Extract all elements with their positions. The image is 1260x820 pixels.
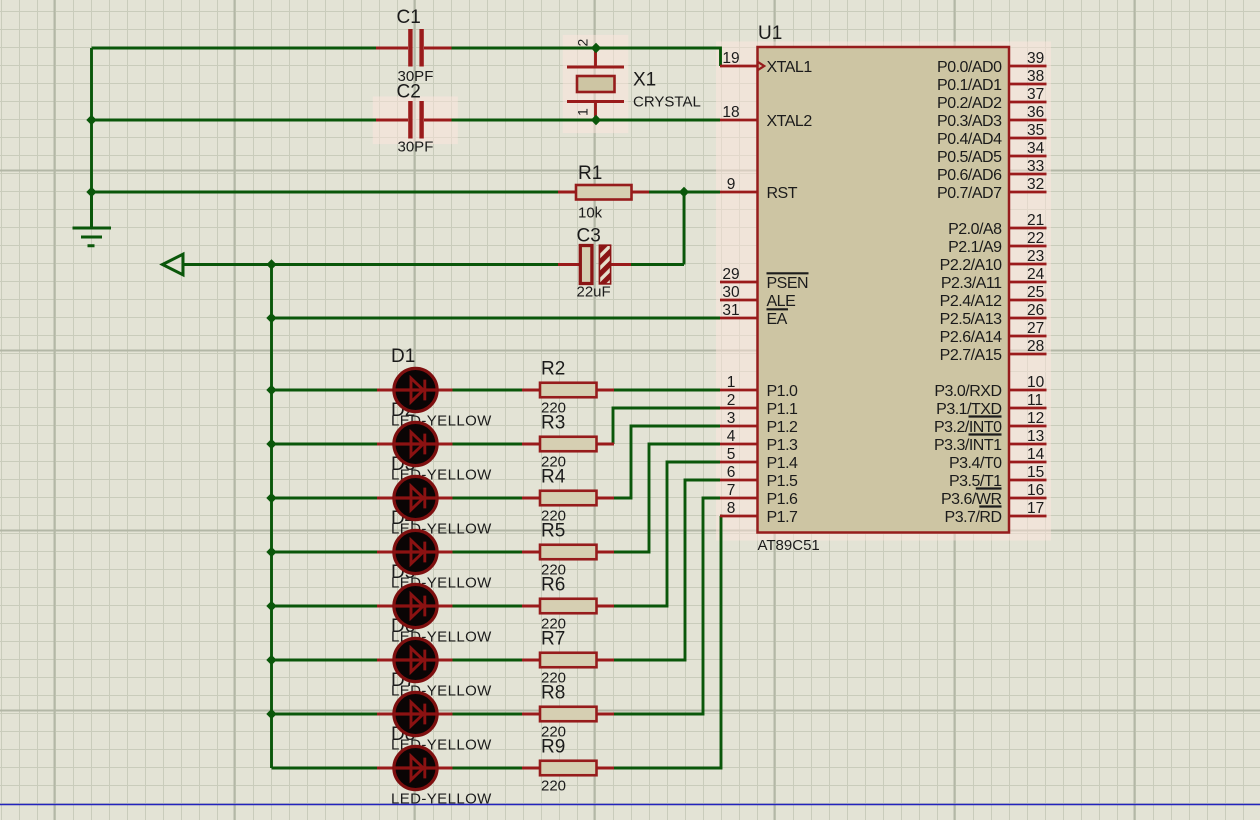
svg-text:30PF: 30PF	[398, 139, 434, 156]
svg-text:28: 28	[1027, 338, 1044, 355]
junction cathode bus / EA node	[266, 313, 276, 323]
overline WR	[976, 487, 1002, 489]
svg-text:36: 36	[1027, 104, 1044, 121]
svg-text:13: 13	[1027, 428, 1044, 445]
svg-text:AT89C51: AT89C51	[758, 537, 820, 554]
svg-text:P2.3/A11: P2.3/A11	[941, 275, 1002, 292]
svg-text:P1.3: P1.3	[767, 437, 799, 454]
svg-text:P2.5/A13: P2.5/A13	[940, 311, 1002, 328]
junction cathode bus / D6 node	[266, 655, 276, 665]
svg-text:10: 10	[1027, 374, 1045, 391]
svg-text:C2: C2	[397, 82, 421, 103]
resistor R9	[522, 767, 614, 770]
wire LED row 2	[272, 443, 523, 446]
capacitor C3 (electrolytic)	[558, 263, 631, 266]
svg-text:10k: 10k	[578, 205, 603, 222]
resistor R6	[522, 605, 614, 608]
LED D4	[377, 551, 453, 554]
svg-text:1: 1	[727, 374, 736, 391]
resistor R2	[522, 389, 614, 392]
svg-text:16: 16	[1027, 482, 1044, 499]
svg-text:2: 2	[727, 392, 736, 409]
resistor R4	[522, 497, 614, 500]
wire C3 row: arrow to C3	[185, 263, 685, 266]
LED D5	[377, 605, 453, 608]
svg-text:P0.4/AD4: P0.4/AD4	[937, 131, 1002, 148]
overline INT0	[969, 415, 1002, 417]
capacitor C2	[376, 119, 452, 122]
svg-text:21: 21	[1027, 212, 1044, 229]
wire riser P1.1	[613, 408, 720, 444]
svg-text:9: 9	[727, 176, 736, 193]
svg-text:17: 17	[1027, 500, 1044, 517]
svg-text:R2: R2	[541, 359, 565, 380]
overline INT1	[969, 433, 1002, 435]
selection highlight C2	[373, 96, 458, 144]
wire riser P1.6	[614, 498, 720, 714]
wire gnd vertical bus left	[90, 48, 93, 228]
junction cathode bus / D2 node	[266, 439, 276, 449]
svg-text:15: 15	[1027, 464, 1044, 481]
wire RST net: gnd bus to R1 to pin 9	[92, 191, 721, 194]
junction cathode bus top node	[266, 259, 276, 269]
svg-text:37: 37	[1027, 86, 1044, 103]
resistor R8	[522, 713, 614, 716]
svg-text:R6: R6	[541, 575, 565, 596]
LED D7	[377, 713, 453, 716]
wire LED row 1	[272, 389, 721, 392]
svg-text:12: 12	[1027, 410, 1044, 427]
svg-text:P2.1/A9: P2.1/A9	[948, 239, 1002, 256]
overline RD	[979, 505, 1001, 507]
svg-text:220: 220	[541, 778, 566, 795]
wire XTAL2 net: C2 to crystal bottom to pin 18	[92, 119, 721, 122]
resistor R5	[522, 551, 614, 554]
crystal X1	[594, 50, 597, 119]
svg-text:26: 26	[1027, 302, 1044, 319]
svg-text:P0.0/AD0: P0.0/AD0	[937, 59, 1002, 76]
wire LED cathode bus vertical	[270, 265, 273, 769]
svg-text:7: 7	[727, 482, 736, 499]
svg-text:29: 29	[722, 266, 739, 283]
svg-text:P1.0: P1.0	[767, 383, 799, 400]
svg-text:38: 38	[1027, 68, 1044, 85]
junction cathode bus / D7 node	[266, 709, 276, 719]
svg-text:P0.5/AD5: P0.5/AD5	[937, 149, 1002, 166]
svg-text:P2.7/A15: P2.7/A15	[940, 347, 1002, 364]
svg-text:C3: C3	[577, 226, 601, 247]
junction cathode bus / D5 node	[266, 601, 276, 611]
svg-text:P1.2: P1.2	[767, 419, 799, 436]
svg-text:30: 30	[722, 284, 740, 301]
LED D1	[377, 389, 453, 392]
junction cathode bus / D3 node	[266, 493, 276, 503]
LED D6	[377, 659, 453, 662]
svg-text:ALE: ALE	[767, 293, 796, 310]
wire riser P1.4	[614, 462, 720, 606]
junction cathode bus / D4 node	[266, 547, 276, 557]
svg-text:33: 33	[1027, 158, 1044, 175]
svg-text:P3.0/RXD: P3.0/RXD	[934, 383, 1001, 400]
svg-text:U1: U1	[758, 23, 782, 44]
svg-text:P0.1/AD1: P0.1/AD1	[937, 77, 1002, 94]
wire riser P1.5	[614, 480, 720, 660]
svg-text:8: 8	[727, 500, 736, 517]
svg-text:EA: EA	[767, 311, 788, 328]
junction gnd bus / XTAL2 net	[86, 115, 96, 125]
svg-text:P0.6/AD6: P0.6/AD6	[937, 167, 1002, 184]
svg-text:P0.7/AD7: P0.7/AD7	[937, 185, 1002, 202]
wire EA net pin 31	[272, 317, 721, 320]
svg-text:39: 39	[1027, 50, 1044, 67]
svg-text:R8: R8	[541, 683, 565, 704]
junction crystal pin2 node	[591, 43, 601, 53]
svg-text:19: 19	[722, 50, 739, 67]
svg-text:P3.7/RD: P3.7/RD	[945, 509, 1002, 526]
overline EA	[767, 308, 789, 310]
LED D8	[377, 767, 453, 770]
svg-text:P1.5: P1.5	[767, 473, 799, 490]
svg-text:24: 24	[1027, 266, 1045, 283]
svg-text:R5: R5	[541, 521, 565, 542]
svg-text:34: 34	[1027, 140, 1045, 157]
svg-text:22uF: 22uF	[577, 284, 611, 301]
svg-text:X1: X1	[633, 70, 656, 91]
svg-text:23: 23	[1027, 248, 1044, 265]
svg-text:P0.3/AD3: P0.3/AD3	[937, 113, 1002, 130]
overline PSEN	[767, 272, 809, 274]
resistor R7	[522, 659, 614, 662]
svg-text:3: 3	[727, 410, 736, 427]
svg-text:P3.3/INT1: P3.3/INT1	[934, 437, 1002, 454]
wire R1/C3 junction vertical	[683, 192, 686, 265]
svg-text:P0.2/AD2: P0.2/AD2	[937, 95, 1002, 112]
wire riser P1.3	[614, 444, 720, 552]
chip right pin stubs	[1009, 66, 1047, 516]
svg-text:R9: R9	[541, 737, 565, 758]
junction gnd bus / RST net	[86, 187, 96, 197]
svg-text:P1.4: P1.4	[767, 455, 799, 472]
svg-text:C1: C1	[397, 7, 421, 28]
svg-text:P1.1: P1.1	[767, 401, 799, 418]
selection highlight U1	[716, 42, 1051, 541]
svg-text:6: 6	[727, 464, 736, 481]
wire LED row 6	[272, 659, 523, 662]
junction cathode bus / D1 node	[266, 385, 276, 395]
svg-text:P1.6: P1.6	[767, 491, 799, 508]
wire LED row 5	[272, 605, 523, 608]
svg-text:22: 22	[1027, 230, 1044, 247]
svg-text:CRYSTAL: CRYSTAL	[633, 94, 701, 111]
node arrow left pointer	[163, 254, 184, 275]
svg-text:31: 31	[722, 302, 739, 319]
svg-text:14: 14	[1027, 446, 1045, 463]
junction RST / C3 node	[679, 187, 689, 197]
svg-text:4: 4	[727, 428, 736, 445]
svg-text:RST: RST	[767, 185, 798, 202]
svg-text:XTAL1: XTAL1	[767, 59, 813, 76]
svg-text:PSEN: PSEN	[767, 275, 809, 292]
svg-text:32: 32	[1027, 176, 1044, 193]
svg-text:18: 18	[722, 104, 739, 121]
svg-text:P3.4/T0: P3.4/T0	[949, 455, 1002, 472]
wire LED row 7	[272, 713, 523, 716]
wire riser P1.2	[614, 426, 720, 498]
junction crystal pin1 node	[591, 115, 601, 125]
svg-text:D1: D1	[391, 346, 415, 367]
ground	[90, 192, 93, 228]
svg-text:R4: R4	[541, 467, 566, 488]
pin 19 clock arrow	[758, 62, 764, 70]
svg-text:1: 1	[575, 108, 591, 116]
wire LED row 8	[272, 767, 523, 770]
svg-text:P2.4/A12: P2.4/A12	[940, 293, 1002, 310]
svg-text:P1.7: P1.7	[767, 509, 799, 526]
svg-text:R1: R1	[578, 163, 602, 184]
resistor R1	[558, 191, 649, 194]
selection highlight X1	[563, 35, 629, 133]
svg-text:2: 2	[575, 39, 591, 47]
svg-text:27: 27	[1027, 320, 1044, 337]
svg-text:5: 5	[727, 446, 736, 463]
svg-text:P2.2/A10: P2.2/A10	[940, 257, 1002, 274]
chip left pin stubs	[720, 66, 758, 516]
svg-text:P2.0/A8: P2.0/A8	[948, 221, 1002, 238]
capacitor C1	[376, 47, 452, 50]
svg-text:25: 25	[1027, 284, 1044, 301]
IC U1 AT89C51 body	[758, 47, 1010, 533]
svg-text:R3: R3	[541, 413, 565, 434]
svg-text:P2.6/A14: P2.6/A14	[940, 329, 1002, 346]
wire LED row 3	[272, 497, 523, 500]
svg-text:11: 11	[1027, 392, 1043, 409]
LED D3	[377, 497, 453, 500]
LED D2	[377, 443, 453, 446]
svg-text:R7: R7	[541, 629, 565, 650]
svg-text:35: 35	[1027, 122, 1044, 139]
wire LED row 4	[272, 551, 523, 554]
wire riser P1.7	[614, 516, 721, 768]
wire XTAL1 net top: C1 to crystal top to pin 19	[92, 48, 721, 66]
svg-text:XTAL2: XTAL2	[767, 113, 813, 130]
sheet border line	[0, 804, 1260, 806]
resistor R3	[522, 443, 614, 446]
